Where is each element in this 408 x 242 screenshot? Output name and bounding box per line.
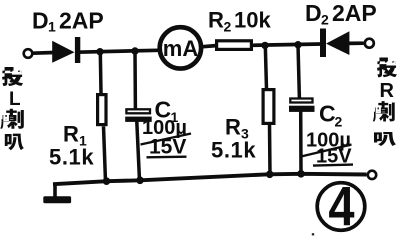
fraction bar C1 [141,134,192,145]
node junction dot (C2 tap) [294,41,301,48]
label R3 [225,115,249,142]
node junction dot (R3 bottom) [266,171,274,179]
wire D2 to terminal R [349,41,364,45]
underline 15V C2 [313,165,353,166]
svg-text:D: D [305,0,322,26]
svg-text:5.1k: 5.1k [49,145,94,170]
wire C1 drop [133,51,137,110]
svg-text:2AP: 2AP [59,8,104,34]
left terminal text: jie (connect) [2,67,23,86]
ground symbol [43,196,71,203]
diode D2 cathode bar [320,29,326,58]
label D2 2AP [305,0,377,28]
scan speck [312,233,314,235]
figure number circle 4 [317,183,365,231]
svg-text:R: R [63,122,79,147]
right terminal text: ba (speaker 2nd char) [374,132,396,146]
svg-text:2AP: 2AP [332,0,377,26]
resistor R3 (box) [263,90,274,124]
wire C1 to bottom rail [137,122,140,181]
wire meter to R2 [201,46,216,47]
svg-text:15V: 15V [149,136,186,159]
capacitor C1 bottom plate [125,117,152,122]
svg-text:D: D [32,8,49,34]
wire R1 drop [99,52,103,93]
figure number 4 [328,175,354,238]
svg-text:10k: 10k [234,8,271,33]
node junction dot (R1 tap) [96,48,103,55]
left terminal text: la (speaker 1st char) [0,109,24,129]
right terminal text: la (speaker 1st char) [373,101,395,121]
svg-text:4: 4 [328,175,354,238]
label C2 [319,101,343,130]
capacitor C2 top plate [290,99,312,103]
svg-text:R: R [380,80,395,102]
capacitor C1 top plate [126,109,150,113]
node junction dot (C1 tap) [131,47,138,54]
node junction dot (C2 bottom) [297,170,305,178]
wire R3 drop [265,45,266,88]
wire to ground [53,183,57,197]
svg-text:2: 2 [321,12,329,28]
label C1 [155,97,179,126]
label R2 10k [208,8,271,35]
wire D1 to meter [78,50,158,52]
svg-text:2: 2 [335,114,343,130]
wire R2 to D2 [253,44,322,45]
node junction dot (C1 bottom) [136,177,144,185]
diode D1 cathode bar [75,37,80,63]
svg-text:C: C [319,101,336,127]
svg-text:L: L [9,89,21,110]
wire R1 to bottom rail [104,126,106,181]
wire C2 to bottom rail [299,111,303,174]
left terminal text: ba (speaker 2nd char) [5,134,24,151]
fraction bar C2 [301,145,352,157]
wire R3 to bottom rail [268,125,272,175]
resistor R1 (box) [98,95,106,125]
resistor R2 (box) [217,41,252,50]
wire terminal-L to D1 [33,51,54,55]
label R1 [63,122,87,149]
wire C2 drop [298,45,299,99]
svg-text:R: R [225,115,241,140]
diode D2 (triangle, pointing left) [326,31,349,55]
bottom rail wire [53,174,367,184]
right terminal text: jie (connect) [377,58,397,78]
terminal L (open circle) [24,49,33,58]
svg-text:2: 2 [224,19,232,35]
svg-text:5.1k: 5.1k [211,138,256,163]
underline 15V C1 [147,155,187,158]
node junction dot (R1 bottom) [103,177,111,185]
terminal R (open circle) [365,39,374,48]
terminal bottom-right (open circle) [368,171,376,179]
svg-text:R: R [208,8,224,33]
svg-text:mA: mA [163,36,199,61]
diode D1 (triangle) [52,41,74,63]
node junction dot (R3 tap) [261,42,268,49]
meter mA (circle) [160,27,201,68]
label D1 2AP [32,8,104,35]
capacitor C2 bottom plate [289,106,315,112]
svg-text:1: 1 [48,19,56,35]
